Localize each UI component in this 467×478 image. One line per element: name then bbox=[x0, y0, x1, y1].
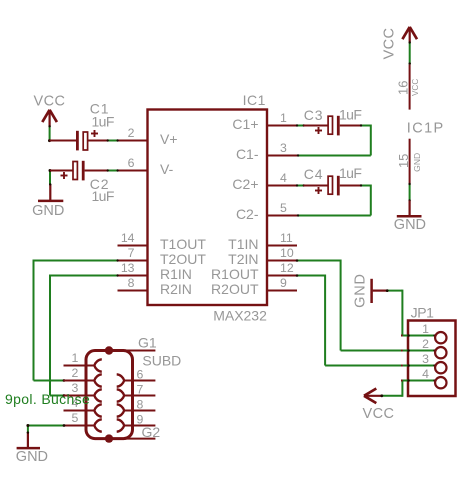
wire GND to JP1 pin 1 bbox=[386, 289, 434, 335]
svg-text:1uF: 1uF bbox=[339, 106, 361, 122]
pin 12 (R1OUT) of IC1 bbox=[211, 261, 297, 282]
svg-text:1: 1 bbox=[422, 322, 429, 336]
svg-text:8: 8 bbox=[137, 397, 144, 411]
pin 11 (T1IN) of IC1 bbox=[228, 231, 297, 252]
svg-text:3: 3 bbox=[422, 352, 429, 366]
svg-text:3: 3 bbox=[280, 141, 287, 155]
pin 3 of JP1 bbox=[401, 352, 446, 373]
label IC1P bbox=[407, 120, 445, 136]
svg-text:GND: GND bbox=[412, 153, 422, 172]
label 9pol. Buchse bbox=[5, 391, 90, 407]
svg-text:2: 2 bbox=[71, 366, 78, 380]
svg-text:13: 13 bbox=[121, 261, 135, 275]
svg-text:7: 7 bbox=[137, 382, 144, 396]
svg-text:9: 9 bbox=[137, 412, 144, 426]
ground GND (right) bbox=[394, 201, 426, 234]
pin 3 of SUBD bbox=[64, 381, 102, 402]
pin 3 (C1-) of IC1 bbox=[236, 141, 297, 162]
pin 14 (T1OUT) of IC1 bbox=[118, 231, 207, 252]
svg-text:T2OUT: T2OUT bbox=[160, 251, 206, 267]
wire VCC to JP1 pin 4 bbox=[380, 381, 433, 398]
pin 5 (C2-) of IC1 bbox=[236, 201, 297, 222]
wire VCC to pin 16 bbox=[409, 41, 411, 64]
wire SUBD pin 5 to GND bbox=[26, 424, 65, 433]
connector G1 SUBD body bbox=[86, 351, 133, 439]
pin 2 of SUBD bbox=[64, 366, 102, 387]
svg-text:11: 11 bbox=[280, 231, 293, 245]
ground GND (rotated, near JP1) bbox=[353, 273, 387, 308]
label G1 name bbox=[138, 334, 157, 350]
svg-text:SUBD: SUBD bbox=[142, 353, 181, 369]
pin 9 of SUBD bbox=[117, 412, 156, 431]
pin 13 (R1IN) of IC1 bbox=[118, 261, 192, 282]
wire net C2 to pin 6 bbox=[107, 169, 119, 171]
svg-text:GND: GND bbox=[394, 217, 426, 233]
svg-text:C3: C3 bbox=[304, 107, 324, 123]
pin 6 (V-) of IC1 bbox=[118, 156, 174, 177]
svg-text:IC1: IC1 bbox=[243, 92, 266, 108]
svg-text:4: 4 bbox=[422, 367, 429, 381]
svg-text:14: 14 bbox=[121, 231, 135, 245]
svg-text:MAX232: MAX232 bbox=[213, 308, 267, 324]
wire pin 13 to SUBD pin 3 bbox=[50, 274, 119, 397]
wire pin 10 to JP1 pin 2 bbox=[296, 259, 434, 350]
VCC supply symbol (bottom, pointing left) bbox=[363, 389, 395, 423]
svg-text:16: 16 bbox=[396, 81, 411, 95]
svg-text:8: 8 bbox=[128, 276, 135, 290]
svg-text:VCC: VCC bbox=[34, 94, 66, 110]
svg-text:T1OUT: T1OUT bbox=[160, 236, 206, 252]
svg-text:VCC: VCC bbox=[363, 406, 395, 422]
pin G2 of SUBD bbox=[105, 424, 161, 443]
svg-text:6: 6 bbox=[128, 156, 135, 170]
svg-text:T2IN: T2IN bbox=[228, 251, 258, 267]
VCC supply symbol (top left) bbox=[34, 94, 66, 127]
svg-text:R1IN: R1IN bbox=[160, 266, 192, 282]
wire pin 15 to GND bbox=[408, 183, 410, 202]
svg-text:R2IN: R2IN bbox=[160, 281, 192, 297]
ground GND (bottom left) bbox=[16, 431, 48, 465]
label IC1 value MAX232 bbox=[213, 308, 267, 324]
wire pin4 to C4 bbox=[296, 184, 305, 186]
svg-text:IC1P: IC1P bbox=[407, 120, 445, 136]
pin 10 (T2IN) of IC1 bbox=[228, 246, 297, 267]
svg-text:10: 10 bbox=[280, 246, 294, 260]
svg-text:GND: GND bbox=[16, 449, 48, 465]
pin 1 (C1+) of IC1 bbox=[232, 111, 297, 132]
svg-text:VCC: VCC bbox=[411, 79, 420, 96]
svg-text:2: 2 bbox=[128, 126, 135, 140]
wire C4 to pin 5 loop bbox=[297, 184, 371, 216]
svg-text:1: 1 bbox=[280, 111, 287, 125]
svg-text:V-: V- bbox=[160, 161, 174, 177]
svg-text:15: 15 bbox=[396, 154, 411, 168]
pin 2 (V+) of IC1 bbox=[118, 126, 178, 147]
wire C2 to GND bbox=[49, 169, 52, 185]
svg-text:R2OUT: R2OUT bbox=[211, 281, 259, 297]
pin 5 of SUBD bbox=[64, 411, 102, 432]
pin 7 of SUBD bbox=[117, 382, 156, 401]
capacitor C2 bbox=[50, 161, 114, 204]
svg-text:C1-: C1- bbox=[236, 146, 259, 162]
pin 4 of JP1 bbox=[401, 367, 446, 388]
pin 4 (C2+) of IC1 bbox=[232, 171, 297, 192]
svg-text:C1+: C1+ bbox=[232, 116, 258, 132]
ground GND (top left) bbox=[32, 183, 64, 219]
svg-text:GND: GND bbox=[353, 273, 369, 308]
connector JP1 body bbox=[408, 321, 456, 397]
pin 7 (T2OUT) of IC1 bbox=[118, 246, 207, 267]
wire pin 7 to SUBD pin 2 bbox=[34, 259, 119, 382]
svg-text:9pol. Buchse: 9pol. Buchse bbox=[5, 391, 90, 407]
capacitor C1 bbox=[49, 101, 113, 151]
capacitor C3 bbox=[304, 106, 362, 135]
wire VCC to C1 node bbox=[48, 125, 50, 141]
pin 6 of SUBD bbox=[117, 367, 156, 386]
pin 1 of SUBD bbox=[64, 351, 102, 372]
label IC1 name bbox=[243, 92, 266, 108]
VCC supply symbol (top right) bbox=[382, 27, 417, 60]
label SUBD value bbox=[142, 353, 181, 369]
pin 1 of JP1 bbox=[401, 322, 446, 343]
pin 15 (GND) of IC1P bbox=[396, 139, 422, 184]
svg-text:1uF: 1uF bbox=[92, 114, 114, 130]
svg-text:4: 4 bbox=[280, 171, 287, 185]
wire net C1 to pin 2 bbox=[107, 139, 119, 141]
pin 8 of SUBD bbox=[117, 397, 156, 416]
svg-text:V+: V+ bbox=[160, 131, 178, 147]
svg-text:GND: GND bbox=[32, 203, 64, 219]
node junction C1 left bbox=[48, 139, 51, 142]
svg-text:JP1: JP1 bbox=[411, 305, 435, 321]
svg-text:R1OUT: R1OUT bbox=[211, 266, 259, 282]
wire pin1 to C3 bbox=[296, 124, 305, 126]
svg-text:6: 6 bbox=[137, 367, 144, 381]
svg-text:G2: G2 bbox=[142, 424, 161, 440]
svg-text:C2-: C2- bbox=[236, 206, 259, 222]
pin 9 (R2OUT) of IC1 bbox=[211, 276, 297, 297]
svg-text:C2+: C2+ bbox=[232, 176, 258, 192]
pin 8 (R2IN) of IC1 bbox=[118, 276, 192, 297]
svg-text:C4: C4 bbox=[304, 166, 324, 182]
svg-text:1: 1 bbox=[71, 351, 78, 365]
svg-text:7: 7 bbox=[128, 246, 135, 260]
svg-text:1uF: 1uF bbox=[92, 188, 114, 204]
wire C3 to pin 3 loop bbox=[297, 124, 371, 156]
svg-text:T1IN: T1IN bbox=[228, 236, 258, 252]
pin 2 of JP1 bbox=[401, 337, 446, 358]
capacitor C4 bbox=[304, 165, 362, 196]
label JP1 name bbox=[411, 305, 435, 321]
pin 4 of SUBD bbox=[64, 396, 102, 417]
pin 16 (VCC) of IC1P bbox=[396, 65, 421, 110]
IC IC1 body (MAX232 box) bbox=[148, 110, 268, 306]
svg-text:VCC: VCC bbox=[382, 28, 398, 60]
svg-text:1uF: 1uF bbox=[339, 165, 361, 181]
svg-text:2: 2 bbox=[422, 337, 429, 351]
svg-text:9: 9 bbox=[280, 276, 287, 290]
svg-text:12: 12 bbox=[280, 261, 294, 275]
wire pin 12 to JP1 pin 3 bbox=[296, 274, 434, 365]
svg-text:5: 5 bbox=[280, 201, 287, 215]
svg-text:G1: G1 bbox=[138, 334, 157, 350]
svg-text:5: 5 bbox=[71, 411, 78, 425]
pin G1 of SUBD bbox=[105, 346, 156, 354]
